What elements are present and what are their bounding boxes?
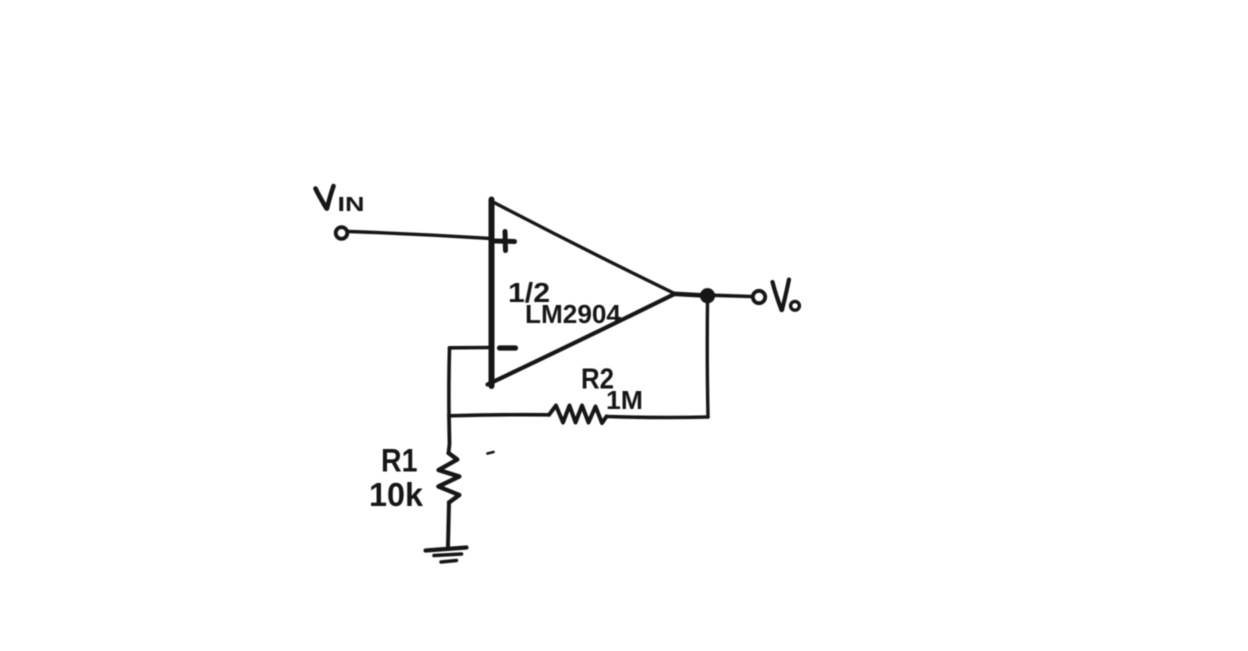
node Vo label (773, 280, 790, 311)
wire feedback right segment (607, 415, 709, 420)
op-amp + input pin (496, 232, 515, 251)
svg-text:LM2904: LM2904 (525, 299, 622, 329)
wire node to Vo terminal (715, 295, 752, 296)
ground (426, 548, 467, 563)
svg-text:IN: IN (338, 194, 365, 216)
input terminal (open circle) (336, 227, 348, 239)
wire R1 to ground (448, 503, 449, 547)
node VIN label (316, 186, 334, 209)
wire feedback left segment (449, 415, 549, 416)
resistor R2 zigzag (549, 406, 607, 424)
svg-text:1M: 1M (606, 385, 643, 415)
wire Vin to + input (349, 232, 492, 239)
op-amp U1 triangle (489, 200, 495, 387)
output terminal (open circle) (753, 291, 765, 303)
resistor R1 zigzag (438, 453, 459, 503)
op-amp - input pin (500, 345, 516, 350)
svg-text:10k: 10k (369, 476, 424, 513)
wire output (apex to node) (674, 294, 702, 296)
svg-text:R1: R1 (381, 443, 418, 479)
stray pen mark (488, 452, 494, 454)
wire - input to feedback node (450, 346, 492, 350)
wire feedback node down to R1 (449, 416, 450, 454)
wire output node down to feedback (706, 303, 710, 418)
node output junction dot (701, 289, 714, 302)
